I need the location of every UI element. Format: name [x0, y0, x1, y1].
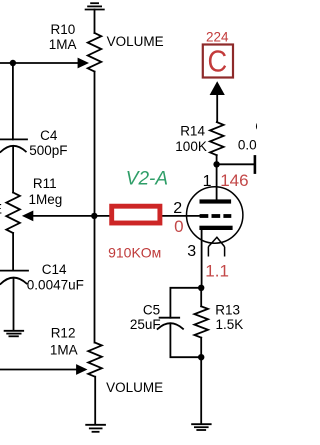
svg-text:25uF: 25uF — [130, 317, 161, 332]
node J2 — [91, 213, 97, 219]
svg-text:2: 2 — [173, 200, 182, 217]
wire cathode lead — [201, 230, 203, 288]
resistor R13 — [194, 306, 208, 337]
ground G1 top — [86, 3, 104, 9]
wire plate arrow stem — [216, 95, 218, 123]
svg-text:R13: R13 — [215, 303, 240, 318]
svg-text:100K: 100K — [175, 139, 207, 154]
ground G4 bottom right — [192, 424, 211, 430]
wire R12 wiper — [0, 369, 77, 371]
svg-text:C5: C5 — [143, 303, 160, 318]
node J3 — [213, 161, 219, 167]
wire node to coupling cap — [217, 163, 254, 165]
svg-text:VOLUME: VOLUME — [106, 380, 163, 395]
svg-text:C14: C14 — [42, 262, 67, 277]
wiper arrow R12 — [76, 364, 87, 375]
wire C14 to ground — [13, 278, 15, 330]
svg-text:E: E — [0, 202, 2, 217]
wire main vertical — [94, 72, 96, 343]
resistor 910K annotation box — [112, 206, 160, 223]
label C — [208, 45, 228, 79]
svg-text:1.1: 1.1 — [205, 262, 229, 281]
svg-text:1Meg: 1Meg — [29, 192, 63, 207]
wire grid net — [32, 215, 200, 217]
tube cathode bar — [199, 226, 232, 230]
resistor R14 — [210, 122, 224, 155]
wire C5 top — [170, 288, 201, 318]
svg-text:0.0047uF: 0.0047uF — [27, 278, 84, 293]
svg-text:C7: C7 — [255, 119, 257, 134]
svg-text:910KОм: 910KОм — [108, 244, 161, 260]
resistor R11 — [6, 193, 20, 234]
svg-text:R14: R14 — [180, 124, 205, 139]
svg-text:0.047uF: 0.047uF — [238, 138, 257, 153]
wire C5 bottom — [170, 324, 201, 358]
svg-text:V2-A: V2-A — [126, 169, 168, 190]
tube grid dashes — [200, 214, 232, 218]
svg-text:R12: R12 — [51, 325, 76, 340]
ground G2 bottom center — [86, 425, 105, 432]
tube plate bar — [200, 199, 232, 203]
wire node to R13 — [200, 288, 202, 307]
wire C4 to R11 — [12, 146, 14, 193]
svg-text:500pF: 500pF — [29, 143, 67, 158]
svg-text:0: 0 — [174, 217, 183, 236]
node J1 — [10, 60, 16, 66]
capacitor C5 — [158, 318, 183, 329]
svg-text:1.5K: 1.5K — [216, 317, 244, 332]
node C box — [203, 45, 233, 78]
wire R13 to ground — [200, 338, 202, 424]
svg-text:224: 224 — [206, 30, 229, 45]
svg-text:VOLUME: VOLUME — [107, 34, 164, 49]
arrow to node C — [210, 81, 225, 95]
ground G3 bottom left — [5, 331, 24, 337]
svg-text:3: 3 — [187, 243, 196, 260]
wire top ground to R10 — [94, 10, 96, 34]
svg-text:146: 146 — [220, 171, 248, 190]
svg-text:R11: R11 — [33, 176, 57, 191]
tube heater — [208, 237, 225, 256]
wire R10 wiper — [0, 62, 79, 64]
tube V2-A envelope — [187, 187, 243, 243]
svg-text:C: C — [208, 45, 228, 79]
wire left column down — [12, 63, 14, 139]
node J4 — [198, 285, 204, 291]
svg-text:1MA: 1MA — [49, 37, 77, 52]
resistor R12 — [88, 343, 102, 377]
node J5 — [198, 354, 204, 360]
wire R11 to C14 — [12, 233, 14, 271]
wiper arrow R11 — [22, 211, 33, 222]
svg-text:1MA: 1MA — [50, 343, 78, 358]
resistor R10 — [88, 33, 102, 72]
svg-text:R10: R10 — [51, 22, 76, 37]
svg-text:1: 1 — [203, 173, 212, 190]
wiper arrow R10 — [78, 58, 89, 69]
wire R14 to plate node — [216, 155, 218, 199]
wire R12 to ground — [94, 377, 96, 424]
svg-text:C4: C4 — [40, 128, 58, 143]
capacitor C7 plate — [254, 156, 257, 172]
capacitor C4 — [0, 139, 27, 152]
capacitor C14 — [0, 271, 28, 284]
